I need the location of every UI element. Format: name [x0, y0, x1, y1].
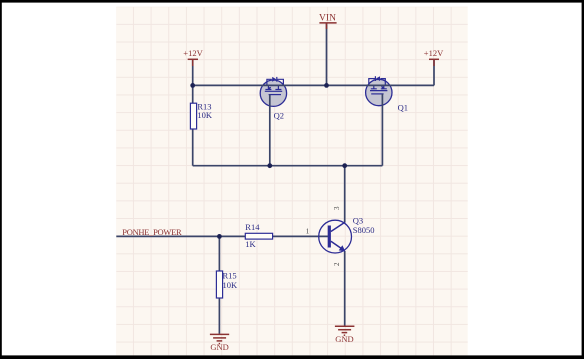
- wire: Q3 collector: [344, 166, 346, 223]
- junction node bottom rail/Q3 collector: [342, 163, 347, 168]
- wire: +12V left stem: [192, 59, 194, 85]
- svg-text:R15: R15: [223, 271, 237, 281]
- resistor R13: [190, 103, 196, 129]
- transistor Q3 (NPN S8050): [319, 220, 352, 253]
- svg-text:3: 3: [333, 206, 341, 210]
- junction node rail/VIN: [324, 83, 329, 88]
- svg-text:S8050: S8050: [353, 225, 375, 235]
- svg-text:+12V: +12V: [183, 48, 203, 58]
- ground symbol right (under Q3): [335, 326, 355, 335]
- wire: R15 branch lower to GND: [218, 298, 220, 334]
- transistor Q1 (PMOS, mirrored): [366, 76, 392, 106]
- svg-text:1: 1: [306, 228, 310, 236]
- svg-text:+12V: +12V: [424, 48, 444, 58]
- wire: R14 to Q3 base: [273, 235, 330, 237]
- svg-text:PONHE_POWER: PONHE_POWER: [122, 227, 182, 237]
- sheet background: [116, 7, 467, 356]
- svg-text:R14: R14: [245, 222, 260, 232]
- svg-text:Q1: Q1: [398, 103, 408, 113]
- junction node bottom rail/Q2 gate: [267, 163, 272, 168]
- wire: Q3 emitter to GND: [344, 251, 346, 326]
- power port VIN: [319, 22, 336, 24]
- wire: +12V right stem: [433, 59, 435, 85]
- power port +12V right: [429, 59, 439, 66]
- wire: bottom rail: [193, 165, 383, 167]
- svg-text:GND: GND: [210, 342, 228, 352]
- junction node PONHE/R15: [217, 234, 222, 239]
- wire: R15 branch upper: [218, 236, 220, 271]
- power port +12V left: [188, 59, 198, 66]
- wire: VIN stem: [326, 24, 328, 86]
- svg-text:10K: 10K: [197, 110, 213, 120]
- wire: Q1 gate drop: [381, 94, 383, 166]
- wire: Q2 gate drop: [269, 95, 271, 166]
- svg-text:2: 2: [333, 262, 341, 266]
- svg-text:Q2: Q2: [274, 110, 284, 120]
- wire: main top rail: [193, 84, 434, 86]
- svg-text:VIN: VIN: [319, 14, 336, 24]
- svg-text:10K: 10K: [223, 280, 239, 290]
- junction node rail/+12V left: [190, 83, 195, 88]
- resistor R15: [216, 271, 222, 298]
- svg-text:1K: 1K: [245, 239, 256, 249]
- wire: R13 branch lower: [192, 129, 194, 166]
- svg-text:GND: GND: [335, 334, 353, 344]
- wire: R13 branch upper: [192, 85, 194, 103]
- resistor R14: [245, 233, 272, 239]
- wire: PONHE_POWER net: [116, 235, 245, 237]
- transistor Q2 (PMOS) body: [260, 77, 286, 107]
- ground symbol left (under R15): [210, 334, 229, 343]
